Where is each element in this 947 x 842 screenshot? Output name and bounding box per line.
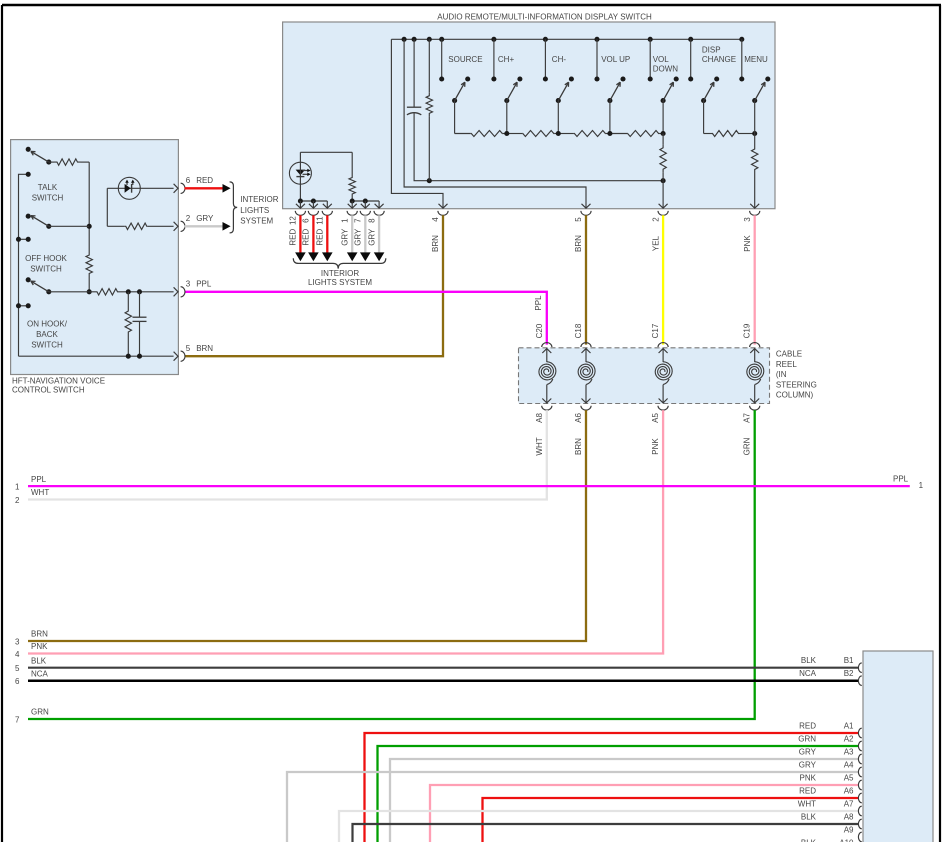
svg-text:AUDIO REMOTE/MULTI-INFORMATION: AUDIO REMOTE/MULTI-INFORMATION DISPLAY S… — [437, 12, 652, 21]
svg-text:3: 3 — [15, 637, 20, 646]
svg-text:PPL: PPL — [534, 295, 543, 311]
svg-text:A6: A6 — [574, 413, 583, 423]
svg-text:GRY: GRY — [354, 228, 363, 246]
svg-text:2: 2 — [15, 496, 20, 505]
svg-text:5: 5 — [574, 217, 583, 222]
svg-text:A4: A4 — [844, 760, 854, 769]
svg-text:PPL: PPL — [31, 475, 47, 484]
svg-text:A7: A7 — [743, 413, 752, 423]
svg-text:MENU: MENU — [744, 55, 768, 64]
svg-text:BRN: BRN — [431, 235, 440, 252]
svg-text:2: 2 — [186, 214, 191, 223]
svg-text:CH+: CH+ — [498, 55, 515, 64]
svg-text:GRY: GRY — [799, 747, 817, 756]
svg-text:(IN: (IN — [776, 370, 787, 379]
svg-text:NCA: NCA — [799, 669, 817, 678]
svg-text:REEL: REEL — [776, 360, 797, 369]
svg-text:SWITCH: SWITCH — [31, 341, 63, 350]
svg-text:DISP: DISP — [702, 46, 721, 55]
svg-text:4: 4 — [15, 650, 20, 659]
svg-text:YEL: YEL — [651, 235, 660, 251]
svg-text:SOURCE: SOURCE — [448, 55, 482, 64]
svg-text:1: 1 — [340, 218, 349, 223]
svg-text:C18: C18 — [574, 323, 583, 338]
svg-text:C17: C17 — [651, 323, 660, 338]
svg-text:4: 4 — [431, 217, 440, 222]
svg-text:BRN: BRN — [574, 438, 583, 455]
svg-text:A5: A5 — [651, 413, 660, 423]
svg-text:B2: B2 — [844, 669, 854, 678]
svg-text:DOWN: DOWN — [653, 65, 679, 74]
svg-text:RED: RED — [799, 786, 816, 795]
svg-text:CH-: CH- — [552, 55, 567, 64]
svg-text:B1: B1 — [844, 656, 854, 665]
svg-text:6: 6 — [15, 677, 20, 686]
svg-text:6: 6 — [302, 218, 311, 223]
svg-text:1: 1 — [15, 482, 20, 491]
svg-text:3: 3 — [743, 217, 752, 222]
svg-text:GRY: GRY — [340, 228, 349, 246]
svg-text:A9: A9 — [844, 825, 854, 834]
svg-text:BLK: BLK — [801, 838, 817, 842]
svg-text:RED: RED — [289, 229, 298, 246]
svg-text:SWITCH: SWITCH — [32, 194, 64, 203]
svg-text:PNK: PNK — [651, 438, 660, 455]
svg-text:BRN: BRN — [196, 344, 213, 353]
svg-text:GRY: GRY — [367, 228, 376, 246]
svg-text:GRY: GRY — [799, 760, 817, 769]
svg-text:COLUMN): COLUMN) — [776, 391, 814, 400]
svg-text:LIGHTS: LIGHTS — [240, 206, 269, 215]
svg-text:PNK: PNK — [31, 642, 48, 651]
svg-text:LIGHTS SYSTEM: LIGHTS SYSTEM — [308, 278, 372, 287]
svg-text:A7: A7 — [844, 799, 854, 808]
svg-text:CHANGE: CHANGE — [702, 55, 736, 64]
svg-text:6: 6 — [186, 176, 191, 185]
svg-text:PNK: PNK — [743, 235, 752, 252]
svg-text:NCA: NCA — [31, 669, 49, 678]
svg-text:1: 1 — [919, 481, 924, 490]
svg-text:5: 5 — [15, 664, 20, 673]
svg-text:WHT: WHT — [535, 437, 544, 455]
svg-text:BLK: BLK — [801, 656, 817, 665]
svg-text:WHT: WHT — [31, 488, 49, 497]
svg-text:GRN: GRN — [31, 708, 49, 717]
svg-text:12: 12 — [289, 216, 298, 225]
svg-text:A10: A10 — [839, 838, 854, 842]
svg-text:GRY: GRY — [196, 214, 214, 223]
svg-text:PNK: PNK — [800, 773, 817, 782]
svg-text:C19: C19 — [743, 323, 752, 338]
svg-text:TALK: TALK — [38, 183, 58, 192]
svg-text:A8: A8 — [844, 812, 854, 821]
svg-text:7: 7 — [354, 218, 363, 223]
svg-text:8: 8 — [367, 218, 376, 223]
svg-text:A1: A1 — [844, 721, 854, 730]
svg-text:3: 3 — [186, 279, 191, 288]
svg-text:A6: A6 — [844, 786, 854, 795]
svg-text:HFT-NAVIGATION VOICE: HFT-NAVIGATION VOICE — [12, 377, 105, 386]
svg-text:A5: A5 — [844, 773, 854, 782]
svg-text:2: 2 — [651, 217, 660, 222]
svg-text:BACK: BACK — [36, 330, 58, 339]
svg-text:ON HOOK/: ON HOOK/ — [27, 320, 68, 329]
svg-text:RED: RED — [196, 176, 213, 185]
svg-text:5: 5 — [186, 344, 191, 353]
svg-text:OFF HOOK: OFF HOOK — [25, 254, 67, 263]
svg-text:7: 7 — [15, 715, 20, 724]
svg-text:VOL UP: VOL UP — [601, 55, 630, 64]
svg-text:BRN: BRN — [574, 235, 583, 252]
svg-text:PPL: PPL — [196, 279, 212, 288]
svg-text:CABLE: CABLE — [776, 350, 802, 359]
svg-text:STEERING: STEERING — [776, 380, 817, 389]
svg-text:CONTROL SWITCH: CONTROL SWITCH — [12, 386, 85, 395]
svg-text:VOL: VOL — [653, 55, 670, 64]
svg-text:PPL: PPL — [893, 475, 909, 484]
svg-text:BLK: BLK — [31, 656, 47, 665]
svg-text:INTERIOR: INTERIOR — [240, 195, 278, 204]
svg-text:WHT: WHT — [798, 799, 816, 808]
svg-text:GRN: GRN — [743, 437, 752, 455]
svg-text:SYSTEM: SYSTEM — [240, 216, 273, 225]
svg-text:BLK: BLK — [801, 812, 817, 821]
svg-text:RED: RED — [799, 721, 816, 730]
svg-text:A2: A2 — [844, 734, 854, 743]
svg-text:BRN: BRN — [31, 630, 48, 639]
svg-text:SWITCH: SWITCH — [30, 264, 62, 273]
svg-text:A3: A3 — [844, 747, 854, 756]
svg-text:A8: A8 — [535, 413, 544, 423]
svg-text:RED: RED — [316, 229, 325, 246]
svg-text:GRN: GRN — [798, 734, 816, 743]
svg-text:RED: RED — [302, 229, 311, 246]
svg-text:11: 11 — [316, 216, 325, 225]
svg-text:C20: C20 — [535, 323, 544, 338]
